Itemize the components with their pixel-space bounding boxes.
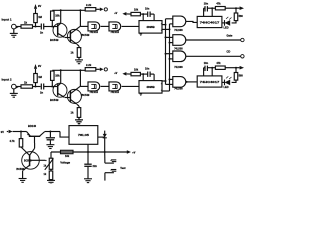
wire Q6 base to pot wiper [30,160,47,167]
wire pass collector to regulator [45,131,60,133]
resistor R15 2.2k (collector load) [85,3,96,11]
schmitt inverter U2A 74LS14 [88,82,100,94]
capacitor C12 10n (timing) [145,8,150,17]
ground at input J1 [10,29,18,37]
svg-text:CD: CD [227,50,231,54]
input connector J2 "Input 2" [2,78,22,89]
stub gate B input 1 [165,36,173,38]
collector rail wire ch1 [52,9,85,11]
capacitor C21 2n2 (series) [40,84,44,95]
wire gate1 to gate2 ch1 [101,25,109,27]
ground at emitter resistor ch1 [75,57,83,63]
resistor R16 10k (timing) [131,8,140,15]
capacitor C6a 10n [204,62,209,71]
capacitor C22 10n (timing) [145,68,150,77]
svg-text:10k: 10k [134,8,139,11]
resistor R5b 560 [234,8,243,20]
wire gate2 to monostable ch2 [122,85,139,87]
AND gate A 74LS08 [173,16,186,32]
supply connector after 2.2k ch2 [96,68,108,72]
svg-text:BC548: BC548 [16,168,24,171]
resistor R21 10k (on rail) [61,150,74,158]
svg-text:22n: 22n [93,164,98,168]
stub gate C input 1 [165,53,173,55]
resistor R25 2.2k (collector load) [85,63,96,71]
svg-text:74LS08: 74LS08 [174,48,183,51]
svg-text:1k: 1k [71,51,74,55]
resistor R6a 47k [215,62,225,69]
display chip U6 74HC4017 [197,76,222,87]
LED D6 [224,76,232,89]
resistor R20 4.7k [10,132,23,148]
AND gate D 74LS08 [173,77,186,91]
svg-text:10n: 10n [145,68,150,71]
output connector Gate [227,33,245,41]
stub gate C input 2 [169,58,173,60]
svg-text:74LS14: 74LS14 [90,31,99,34]
wire cap to resistor 5 [207,7,215,16]
svg-text:+V: +V [132,151,135,154]
capacitor C5a 10n [204,3,209,12]
wire 560 to LED 6 [232,80,236,82]
resistor R26 10k (timing) [131,68,140,75]
wire chip to LED 5 [222,22,225,24]
svg-text:1k: 1k [24,21,28,25]
display chip U5 74HC4017 [197,16,222,27]
svg-text:2.2k: 2.2k [86,3,92,7]
wire monostable2 Q output [162,80,167,82]
wire 9V to pass transistor [13,131,27,133]
resistor R23 10k (feedback) [51,71,61,87]
svg-text:+V: +V [114,72,117,75]
+9V supply arrow ch2 [34,64,42,74]
supply connector after 2.2k ch1 [96,8,108,12]
stub gate A input 2 [170,23,173,25]
svg-text:10n: 10n [204,62,209,65]
wire cap to chip ch1 [150,14,154,21]
svg-text:4098B: 4098B [146,85,154,89]
schmitt inverter U1B 74LS14 [109,22,121,34]
monostable U1C 4098B [139,21,162,33]
svg-text:74LS08: 74LS08 [174,88,183,91]
+V arrow rail [127,150,136,154]
wire resistor to +V 6 [225,67,237,69]
schmitt inverter U1A 74LS14 [88,22,100,34]
svg-text:2n: 2n [40,91,43,95]
wire timing node ch2 [140,73,147,81]
ground at C20 [46,145,54,149]
svg-text:10k: 10k [134,68,139,71]
capacitor C21 22n [84,152,97,179]
svg-text:+V: +V [114,12,117,15]
wire node A ch2 [33,86,41,88]
resistor R24 1k (emitter) [71,104,81,117]
wire cap left lead 6 [204,68,205,76]
resistor R12 1M (to +9V) [34,14,43,27]
svg-text:Input 2: Input 2 [2,78,12,82]
resistor R14 1k (emitter) [71,44,81,57]
test jack 1 [105,152,117,163]
svg-text:74HC4017: 74HC4017 [200,80,220,84]
wire resistor to +V 5 [225,7,237,9]
resistor R5a 47k [215,3,225,10]
svg-text:LED: LED [224,86,229,89]
svg-text:1k: 1k [24,81,28,85]
wire cap to chip ch2 [150,74,154,81]
wire gate C to CD output [186,55,241,57]
svg-text:74LS14: 74LS14 [111,91,120,94]
svg-text:Input 1: Input 1 [2,18,12,22]
capacitor C20 100n (reg input) [46,132,55,145]
svg-text:560: 560 [239,75,244,78]
resistor R22 1M (to +9V) [34,74,43,87]
wire monostable2 Q-bar output [162,90,170,92]
wire rail tap to gate ch1 [80,25,88,27]
svg-text:560: 560 [239,15,244,18]
label Voltage [60,160,70,164]
wire chip to LED 6 [222,81,225,83]
wire node B ch1 [44,26,58,28]
AND gate C 74LS08 [173,51,186,69]
schmitt inverter U2B 74LS14 [109,82,121,94]
wire cap to resistor 6 [207,67,215,76]
test jack 2 [105,170,116,181]
svg-text:BC549: BC549 [50,98,59,102]
ground at input J2 [10,89,18,97]
svg-text:Gate: Gate [227,33,233,37]
transistor Q5 BD140 (pass) [27,124,45,143]
wire into regulator [60,132,69,138]
svg-text:4.7k: 4.7k [10,139,16,143]
monostable U2C 4098B [139,81,162,94]
wire gate1 to gate2 ch2 [101,85,109,87]
bus wire v1 [165,19,167,85]
transistor Q22 BC549 [65,70,90,104]
transistor Q21 BC549 [50,70,67,102]
svg-text:10k: 10k [55,13,60,17]
bus wire v2 [169,24,171,91]
ground at Q6 emitter [19,179,27,183]
transistor Q6 BC548 [16,143,39,178]
diode D7 1N4148 [103,134,107,152]
svg-text:BC549: BC549 [50,38,59,42]
wire regulator output [98,131,105,138]
9V input arrow [1,130,13,134]
wire gate2 to monostable ch1 [122,25,139,27]
svg-text:BC549: BC549 [82,34,90,37]
wire gate D to chip U6 [186,81,197,83]
ground above regulator [75,117,83,123]
svg-text:74LS14: 74LS14 [111,31,120,34]
svg-text:9V: 9V [1,130,4,134]
wire pot top [50,152,52,158]
stub gate A input 1 [166,18,173,20]
ground at C21 [84,179,92,183]
svg-text:2n: 2n [40,31,43,35]
stub gate D input 2 [166,83,173,85]
resistor R22 1k (below pot) [44,169,53,179]
LED D5 [224,17,232,30]
+V arrow 5 [236,6,244,10]
wire gate B to Gate output [186,39,241,41]
svg-text:2.2k: 2.2k [86,63,92,67]
svg-text:9V: 9V [38,64,41,68]
svg-text:78L05: 78L05 [78,133,90,137]
capacitor C11 2n2 (series) [40,24,44,35]
wire gate A to chip U5 [186,21,197,22]
svg-text:74LS08: 74LS08 [174,29,183,32]
output connector CD [227,50,245,58]
svg-text:4098B: 4098B [146,25,154,29]
wire timing node ch1 [140,13,147,21]
ground at emitter resistor ch2 [75,117,83,123]
stub gate B input 2 [169,42,173,44]
wire node A ch1 [33,26,41,28]
svg-text:47k: 47k [216,62,221,65]
svg-text:LED: LED [224,27,229,30]
resistor R13 10k (feedback) [51,11,61,27]
+9V supply arrow ch1 [34,4,42,14]
svg-text:BD140: BD140 [28,124,37,128]
resistor R6b 560 [234,68,243,80]
svg-text:1k: 1k [71,111,74,115]
svg-text:10n: 10n [204,3,209,6]
potentiometer VR1 [45,158,54,170]
wire node B ch2 [44,86,58,88]
svg-text:47k: 47k [216,3,221,6]
input connector J1 "Input 1" [2,18,22,29]
svg-text:10k: 10k [65,155,70,158]
ground pin monostable ch2 [140,93,143,95]
+5V rail [51,151,127,153]
label Test [120,166,125,170]
resistor R11 1k (series input) [21,21,33,29]
svg-text:74HC4017: 74HC4017 [200,20,220,24]
wire cap left lead 5 [204,8,205,16]
svg-text:9V: 9V [38,4,41,8]
stub gate D input 1 [169,78,173,80]
transistor Q12 BC549 [65,10,90,44]
wire monostable1 Q-bar output [162,28,171,30]
resistor R21 1k (series input) [21,81,33,89]
svg-text:74LS14: 74LS14 [90,91,99,94]
svg-text:Test: Test [120,166,125,170]
collector rail wire ch2 [52,69,85,71]
wire monostable1 Q output [162,24,167,26]
svg-text:BC549: BC549 [82,94,90,97]
wire rail tap to gate ch2 [80,85,88,87]
svg-text:10k: 10k [55,73,60,77]
wire 560 to LED 5 [232,21,236,23]
ground below R22 [47,180,55,185]
+V arrow timing ch1 [114,12,131,16]
svg-text:10n: 10n [145,8,150,11]
ground pin monostable ch1 [140,33,143,35]
+V arrow timing ch2 [114,72,131,76]
wire reg ground pin [87,144,89,152]
svg-text:74LS08: 74LS08 [174,66,183,69]
voltage regulator U7 78L05 [69,126,98,145]
svg-text:Voltage: Voltage [60,160,70,164]
AND gate B 74LS08 [173,35,186,51]
transistor Q11 BC549 [50,10,67,42]
+V arrow 6 [236,66,244,70]
